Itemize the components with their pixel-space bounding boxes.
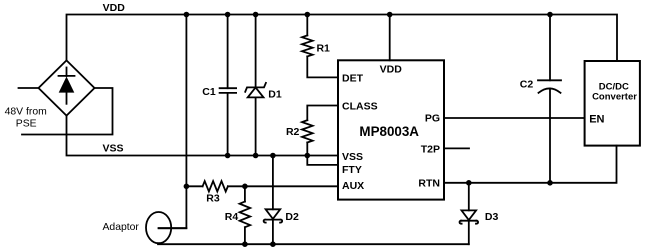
svg-text:Converter: Converter xyxy=(592,91,637,102)
svg-text:D1: D1 xyxy=(268,89,282,101)
svg-text:EN: EN xyxy=(589,113,604,125)
svg-text:FTY: FTY xyxy=(342,164,362,176)
svg-text:VSS: VSS xyxy=(102,143,123,155)
svg-text:D3: D3 xyxy=(485,211,499,223)
svg-text:Adaptor: Adaptor xyxy=(102,222,139,233)
svg-text:PG: PG xyxy=(425,113,440,125)
svg-text:C2: C2 xyxy=(520,78,534,90)
svg-text:VDD: VDD xyxy=(103,2,126,14)
svg-text:VSS: VSS xyxy=(342,151,363,163)
svg-text:R2: R2 xyxy=(286,126,300,138)
svg-text:R1: R1 xyxy=(316,43,330,55)
svg-text:RTN: RTN xyxy=(418,178,440,190)
svg-text:T2P: T2P xyxy=(421,143,440,155)
svg-text:MP8003A: MP8003A xyxy=(359,124,419,139)
svg-text:CLASS: CLASS xyxy=(342,101,378,113)
svg-text:DET: DET xyxy=(342,73,364,85)
svg-text:R3: R3 xyxy=(206,193,220,205)
svg-text:R4: R4 xyxy=(225,211,239,223)
svg-text:C1: C1 xyxy=(202,86,216,98)
svg-text:AUX: AUX xyxy=(342,180,364,192)
svg-text:D2: D2 xyxy=(285,211,299,223)
svg-text:48V from: 48V from xyxy=(5,107,47,118)
svg-text:PSE: PSE xyxy=(16,119,37,130)
svg-text:VDD: VDD xyxy=(380,64,403,76)
